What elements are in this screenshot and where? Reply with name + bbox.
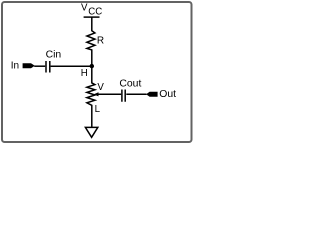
svg-text:R: R — [97, 36, 104, 47]
svg-text:L: L — [95, 104, 101, 115]
svg-text:H: H — [81, 68, 88, 79]
svg-text:V: V — [81, 3, 88, 14]
svg-text:Cout: Cout — [119, 78, 141, 89]
svg-text:CC: CC — [88, 6, 102, 17]
svg-text:In: In — [11, 61, 19, 72]
svg-text:Cin: Cin — [46, 49, 62, 60]
svg-text:Out: Out — [159, 89, 176, 100]
svg-text:V: V — [97, 82, 104, 93]
